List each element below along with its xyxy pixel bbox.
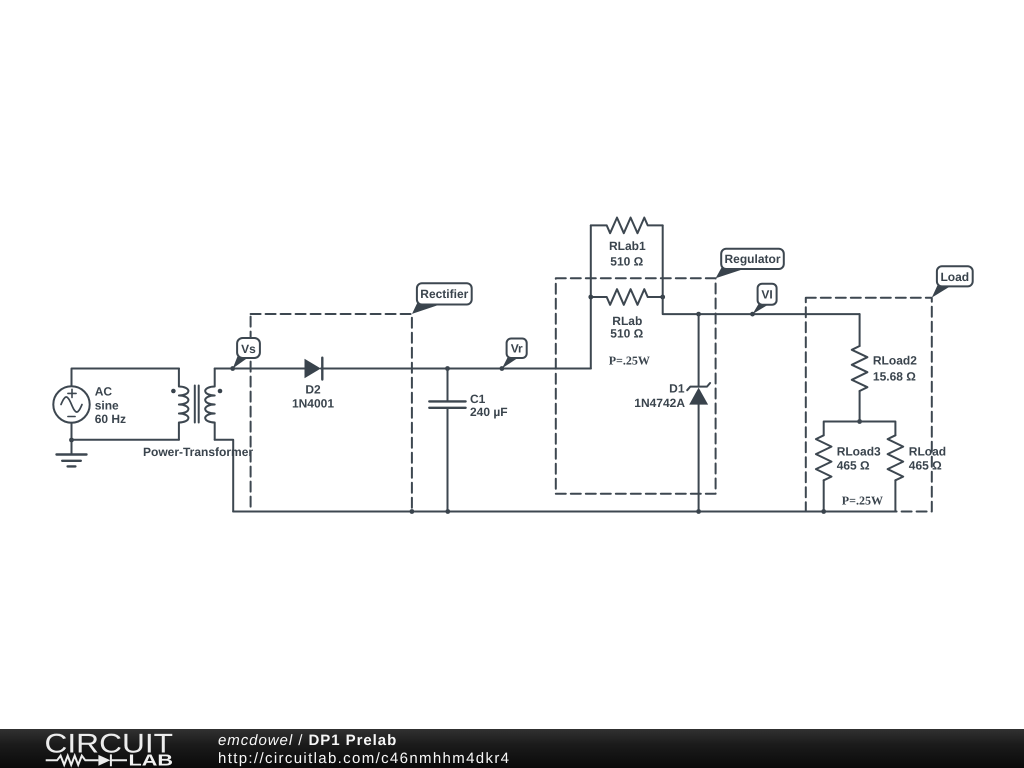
wire AC bottom — [71, 423, 73, 455]
wire regulator input riser — [590, 297, 592, 369]
wire top main (secondary to diode) — [215, 368, 305, 370]
node C1 top — [445, 366, 450, 371]
label D2 1N4001 — [292, 383, 334, 411]
resistor RLab — [591, 289, 663, 305]
node load mid — [857, 419, 862, 424]
wire zener bottom — [698, 405, 700, 512]
logo resistor — [46, 756, 99, 765]
svg-text:Vr: Vr — [511, 342, 523, 356]
flag Rectifier — [412, 283, 472, 314]
label C1 240 uF — [470, 392, 508, 419]
CircuitLab logo — [0, 729, 200, 768]
svg-text:Vs: Vs — [241, 342, 256, 356]
svg-text:510 Ω: 510 Ω — [610, 255, 643, 269]
node RLab right — [660, 295, 665, 300]
dashed box Load — [806, 298, 932, 512]
AC source V1 — [53, 386, 89, 422]
wire load mid horizontal — [824, 422, 896, 436]
label RLab1 510 ohm — [609, 239, 646, 269]
node junction AC bottom — [69, 438, 74, 443]
node rail C1 — [445, 509, 450, 514]
svg-text:VI: VI — [761, 288, 772, 302]
transformer T1 secondary winding — [205, 369, 215, 440]
svg-text:240 µF: 240 µF — [470, 405, 508, 419]
wire secondary return — [215, 440, 234, 512]
resistor RLoad3 — [816, 435, 832, 480]
svg-text:P=.25W: P=.25W — [609, 354, 650, 368]
svg-text:D2: D2 — [305, 383, 321, 397]
wire primary bottom — [72, 439, 179, 441]
node zener tap — [696, 312, 701, 317]
flag VI — [753, 284, 777, 314]
resistor RLab1 — [591, 218, 663, 234]
wire RLoad bottom — [894, 480, 896, 511]
node rail zener — [696, 509, 701, 514]
svg-text:D1: D1 — [669, 382, 685, 396]
flag Vr — [502, 339, 527, 369]
svg-text:Load: Load — [940, 270, 969, 284]
wire RLoad3 bottom — [823, 480, 825, 511]
transformer T1 phase dots — [171, 389, 222, 394]
resistor RLoad — [888, 435, 904, 480]
svg-text:AC: AC — [95, 385, 113, 399]
capacitor C1 — [429, 369, 465, 512]
wire RLoad2 bottom — [859, 391, 861, 422]
svg-text:RLoad3: RLoad3 — [837, 445, 881, 459]
zener diode D1 — [687, 383, 710, 405]
svg-text:1N4742A: 1N4742A — [634, 396, 685, 410]
flag Load — [932, 266, 973, 297]
svg-text:1N4001: 1N4001 — [292, 397, 334, 411]
resistor RLoad2 — [852, 346, 868, 391]
svg-text:Regulator: Regulator — [724, 252, 780, 266]
ground GND — [57, 455, 87, 467]
svg-text:RLab1: RLab1 — [609, 239, 646, 253]
footer url line — [218, 750, 510, 767]
node Vr — [500, 366, 505, 371]
svg-text:Rectifier: Rectifier — [420, 287, 468, 301]
node VI — [750, 312, 755, 317]
logo diode — [98, 755, 110, 766]
wire RLab1 left branch — [590, 225, 592, 297]
node RLab left — [588, 295, 593, 300]
svg-text:Power-Transformer: Power-Transformer — [143, 445, 253, 459]
svg-text:LAB: LAB — [129, 752, 174, 768]
label D1 1N4742A — [634, 382, 685, 411]
dashed box Regulator — [556, 278, 716, 493]
svg-text:15.68 Ω: 15.68 Ω — [873, 370, 916, 384]
wire top main left (AC top to transformer primary) — [72, 369, 179, 387]
label RLoad2 15.68 ohm — [873, 354, 917, 384]
wire RLoad2 top — [859, 314, 861, 346]
label RLab 510 ohm — [610, 314, 643, 341]
dashed box Rectifier — [251, 314, 412, 512]
wire top main (diode to regulator) — [321, 368, 591, 370]
transformer T1 primary winding — [179, 369, 189, 440]
footer bar — [0, 729, 1024, 768]
svg-text:P=.25W: P=.25W — [842, 494, 883, 508]
svg-text:60 Hz: 60 Hz — [95, 412, 126, 426]
svg-text:C1: C1 — [470, 392, 486, 406]
label AC sine 60 Hz — [95, 385, 126, 427]
label RLoad3 465 ohm — [837, 445, 881, 473]
wire zener top — [698, 314, 700, 387]
transformer T1 core — [195, 386, 199, 423]
node rail rectifier corner — [410, 509, 415, 514]
svg-text:RLoad2: RLoad2 — [873, 354, 917, 368]
label RLoad 465 ohm — [909, 445, 946, 473]
flag Vs — [233, 338, 260, 369]
svg-text:465 Ω: 465 Ω — [837, 459, 870, 473]
flag Regulator — [716, 249, 784, 279]
node rail RLoad3 — [821, 509, 826, 514]
wire regulator output — [663, 297, 860, 314]
svg-text:RLoad: RLoad — [909, 445, 946, 459]
wire RLab1 right branch — [662, 225, 664, 297]
wire bottom rail — [233, 511, 895, 513]
diode D2 — [305, 358, 323, 380]
node Vs — [230, 366, 235, 371]
svg-text:510 Ω: 510 Ω — [610, 327, 643, 341]
footer title line — [218, 732, 397, 749]
svg-text:465 Ω: 465 Ω — [909, 459, 942, 473]
svg-text:sine: sine — [95, 398, 119, 412]
